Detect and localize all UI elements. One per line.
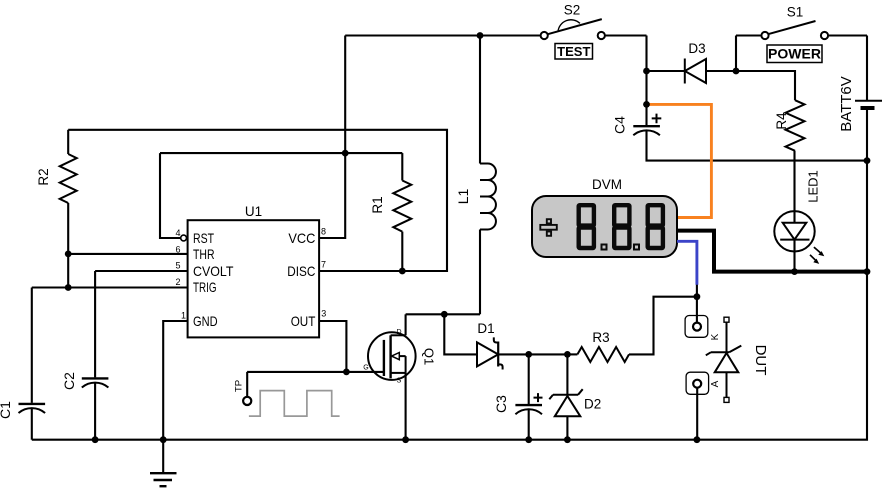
svg-text:D: D: [396, 329, 401, 336]
svg-text:TP: TP: [234, 380, 245, 392]
svg-text:6: 6: [175, 244, 180, 254]
svg-text:DVM: DVM: [592, 177, 622, 192]
svg-text:VCC: VCC: [288, 230, 315, 246]
svg-text:OUT: OUT: [291, 313, 316, 329]
svg-text:RST: RST: [193, 230, 214, 246]
svg-text:D1: D1: [477, 321, 494, 336]
svg-text:LED1: LED1: [806, 170, 821, 203]
svg-text:S2: S2: [564, 3, 581, 18]
svg-text:R1: R1: [370, 196, 385, 213]
svg-text:POWER: POWER: [768, 46, 821, 62]
svg-text:CVOLT: CVOLT: [193, 263, 234, 279]
svg-text:C3: C3: [493, 395, 509, 413]
svg-text:DISC: DISC: [287, 263, 315, 279]
svg-text:C4: C4: [612, 116, 628, 134]
svg-text:U1: U1: [245, 204, 262, 219]
svg-text:K: K: [710, 333, 721, 340]
svg-text:R4: R4: [774, 112, 789, 130]
svg-text:7: 7: [321, 260, 326, 270]
svg-text:C2: C2: [61, 372, 77, 390]
svg-text:THR: THR: [193, 246, 215, 262]
svg-text:G: G: [363, 365, 368, 372]
svg-text:3: 3: [321, 308, 326, 318]
svg-text:TRIG: TRIG: [193, 279, 217, 295]
svg-text:TEST: TEST: [557, 44, 590, 59]
svg-text:D2: D2: [584, 397, 601, 412]
svg-text:D3: D3: [688, 41, 705, 56]
svg-text:R2: R2: [36, 168, 51, 185]
svg-text:R3: R3: [592, 330, 609, 345]
svg-text:GND: GND: [193, 313, 218, 329]
svg-text:5: 5: [175, 261, 180, 271]
svg-text:2: 2: [175, 277, 180, 287]
svg-text:S: S: [397, 378, 402, 385]
svg-text:DUT: DUT: [752, 345, 769, 376]
svg-text:Q1: Q1: [422, 348, 437, 365]
svg-text:8: 8: [321, 226, 326, 236]
svg-text:L1: L1: [455, 189, 471, 205]
svg-text:C1: C1: [0, 401, 13, 419]
svg-text:4: 4: [175, 228, 180, 238]
svg-text:1: 1: [181, 310, 186, 320]
svg-text:BATT6V: BATT6V: [838, 76, 855, 132]
svg-text:S1: S1: [787, 5, 804, 20]
svg-text:A: A: [710, 380, 721, 387]
